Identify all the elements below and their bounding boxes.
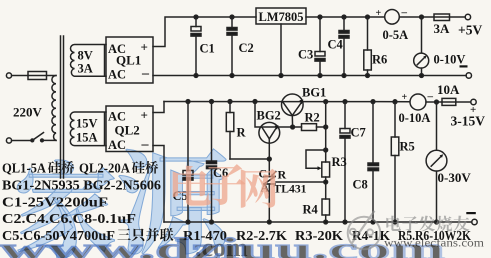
ammeter A1 0-5A <box>385 9 400 24</box>
svg-text:0-10V: 0-10V <box>434 53 466 67</box>
svg-text:QL1-5A: QL1-5A <box>2 161 46 176</box>
svg-text:BG1-2N5935 BG2-2N5606: BG1-2N5935 BG2-2N5606 <box>2 178 161 193</box>
capacitor C5 <box>183 100 193 224</box>
svg-text:QL2-20A: QL2-20A <box>79 161 130 176</box>
node V2 bottom <box>435 220 439 224</box>
svg-text:8V: 8V <box>78 49 93 63</box>
voltmeter V2 0-30V <box>426 102 447 222</box>
node R6 top <box>366 15 370 19</box>
watermark blue char 1 <box>17 160 114 258</box>
svg-text:3-15V: 3-15V <box>451 114 486 129</box>
svg-text:BG2: BG2 <box>257 109 281 123</box>
transformer secondary 2 (15V 15A) winding + label box <box>70 112 106 146</box>
bridge rectifier QL2 <box>106 106 153 152</box>
node TL431 anode <box>267 220 271 224</box>
svg-text:3A: 3A <box>78 62 93 76</box>
node R6 bottom <box>366 74 370 78</box>
node C2 top <box>230 15 234 19</box>
capacitor C2 <box>227 17 237 76</box>
svg-text:C1-25V2200uF: C1-25V2200uF <box>2 195 108 210</box>
svg-text:R5: R5 <box>400 140 415 154</box>
node C3 top <box>318 15 322 19</box>
node TL431 cathode <box>267 157 271 161</box>
node 7805 gnd <box>279 74 283 78</box>
node C1 bottom <box>194 74 198 78</box>
label minus (5V out) <box>460 65 468 67</box>
capacitor C6 <box>207 100 217 224</box>
wire QL1 + to top rail <box>153 17 256 47</box>
potentiometer R3 <box>322 162 330 199</box>
svg-text:220V: 220V <box>13 105 43 120</box>
fuse 3A <box>434 14 450 21</box>
capacitor C1 <box>191 17 201 76</box>
node C4 top <box>342 15 346 19</box>
svg-text:R2: R2 <box>305 111 320 125</box>
wire <box>12 75 28 77</box>
svg-text:R4: R4 <box>303 203 319 217</box>
svg-text:15V: 15V <box>76 117 98 131</box>
svg-text:AC: AC <box>108 68 126 82</box>
svg-text:C3: C3 <box>298 48 313 62</box>
fuse FU 220V <box>28 72 56 80</box>
wire <box>12 140 32 142</box>
resistor R4 <box>322 199 330 222</box>
bridge rectifier QL1 <box>106 37 153 83</box>
shunt reg TL431 <box>264 159 276 222</box>
output terminal +5V <box>465 14 470 19</box>
svg-text:–: – <box>141 66 150 81</box>
svg-text:C2.C4.C6.C8-0.1uF: C2.C4.C6.C8-0.1uF <box>2 211 136 226</box>
svg-text:TL431: TL431 <box>274 184 307 196</box>
svg-text:www.dziuu.com: www.dziuu.com <box>0 231 445 258</box>
label minus (3-15V out) <box>466 212 476 214</box>
svg-text:www.elecfans.com: www.elecfans.com <box>384 236 485 250</box>
svg-text:10A: 10A <box>437 82 460 97</box>
node R3 wiper tie <box>324 148 328 152</box>
node meter/voltmeter V2 <box>435 100 439 104</box>
svg-text:+: + <box>376 8 382 19</box>
svg-text:R: R <box>278 168 287 182</box>
fuse 10A <box>442 98 471 105</box>
watermark pink char 3 <box>241 169 277 208</box>
transformer T primary winding <box>52 76 56 141</box>
TL431 ref wire <box>276 181 326 183</box>
svg-text:QL1: QL1 <box>116 53 141 68</box>
svg-text:–: – <box>427 91 434 103</box>
svg-text:LM7805: LM7805 <box>259 10 304 24</box>
node BG1 emitter / BG2 / R2 <box>291 125 295 129</box>
transistor Q2 BG2 <box>253 100 293 159</box>
svg-text:C7: C7 <box>351 126 366 140</box>
watermark elecfans logo circle <box>348 211 381 249</box>
node C2 bottom <box>230 74 234 78</box>
top output rail <box>306 16 465 18</box>
svg-text:AC: AC <box>108 110 126 124</box>
svg-text:C1: C1 <box>200 42 215 56</box>
capacitor C4 <box>339 17 349 76</box>
watermark pink char 2 <box>204 164 246 205</box>
node ref/R3 bottom <box>324 180 328 184</box>
node C1 top <box>194 15 198 19</box>
node C3 bottom <box>318 74 322 78</box>
R3 wiper link <box>306 150 326 170</box>
node voltmeter V1 top <box>420 15 424 19</box>
transformer secondary 1 (8V 3A) winding + label box <box>71 45 107 77</box>
top section ground rail <box>153 75 466 77</box>
LM7805 ground pin <box>280 24 282 76</box>
svg-text:+: + <box>141 40 148 55</box>
node V1 bottom <box>420 74 424 78</box>
capacitor C3 <box>315 17 325 76</box>
input terminal bottom <box>6 138 11 143</box>
svg-text:+5V: +5V <box>458 23 482 38</box>
wire rail to R3 chain <box>324 100 328 162</box>
input terminal top <box>6 73 11 78</box>
svg-text:R6: R6 <box>372 53 387 67</box>
output terminal 3-15V <box>471 99 476 104</box>
svg-text:BG1: BG1 <box>302 86 326 100</box>
resistor R (bias) <box>226 100 269 159</box>
wire QL2 - down <box>153 146 164 223</box>
lower positive rail <box>164 101 410 103</box>
svg-text:0-10A: 0-10A <box>399 111 431 125</box>
output terminal minus (3-15V) <box>472 219 477 224</box>
switch K <box>31 133 56 142</box>
watermark elecfans text <box>386 216 469 232</box>
svg-text:+: + <box>402 92 408 103</box>
output terminal minus (5V) <box>466 73 471 78</box>
svg-text:–: – <box>401 7 408 19</box>
watermark blue char 2 <box>119 149 226 254</box>
svg-text:C4: C4 <box>328 38 344 52</box>
node R2 right <box>324 125 328 129</box>
svg-text:C2: C2 <box>239 41 254 55</box>
resistor R2 <box>293 124 326 131</box>
voltmeter V1 0-10V <box>414 17 429 76</box>
node C4 bottom <box>342 74 346 78</box>
svg-text:R3: R3 <box>332 155 347 169</box>
resistor R5 <box>391 100 399 224</box>
watermark pink char 1 <box>173 166 211 206</box>
resistor R6 <box>364 17 372 76</box>
svg-text:C8: C8 <box>353 178 368 192</box>
lower ground rail <box>164 221 472 223</box>
wire QL2 + to rail <box>153 102 164 113</box>
ammeter A2 0-10A <box>410 94 442 110</box>
svg-text:+: + <box>141 108 148 123</box>
node R4 bottom <box>324 220 328 224</box>
svg-text:AC: AC <box>108 138 126 152</box>
svg-text:+: + <box>470 104 476 116</box>
capacitor C7 <box>340 100 350 224</box>
transformer core <box>61 36 64 178</box>
svg-text:15A: 15A <box>76 131 98 145</box>
svg-text:3A: 3A <box>434 21 451 36</box>
svg-text:–: – <box>141 137 150 152</box>
transistor Q1 BG1 <box>282 94 304 127</box>
svg-text:R: R <box>237 126 247 140</box>
regulator U1 LM7805 <box>256 8 306 24</box>
svg-text:0-30V: 0-30V <box>438 170 472 185</box>
capacitor C8 <box>368 100 379 224</box>
svg-text:QL2: QL2 <box>115 123 140 138</box>
svg-text:0-5A: 0-5A <box>383 28 409 42</box>
